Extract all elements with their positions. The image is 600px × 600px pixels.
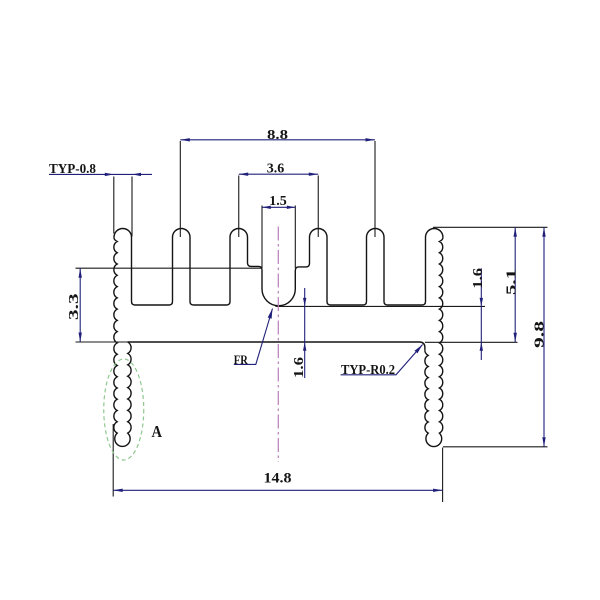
arrowhead dim 14.8 left <box>113 489 123 492</box>
arrowhead dim 1.6 right top <box>480 298 483 307</box>
arrowhead dim TYP-0.8 right <box>132 173 141 176</box>
extension line: base bottom rightward (for dims 1.6 and 5.1) <box>425 341 518 343</box>
dimension line 8.8 <box>180 139 375 141</box>
detail ellipse A (green dashed) <box>104 359 144 460</box>
heatsink profile: fins and grooves outline <box>114 229 443 306</box>
heatsink profile: serrated right edge and right mounting pin <box>425 237 443 446</box>
arrowhead dim 3.6 right <box>309 173 318 176</box>
extension line: fin3 center (dim 3.6 left) <box>238 176 240 238</box>
svg-text:5.1: 5.1 <box>504 269 519 295</box>
heatsink profile: serrated left edge and left mounting pin <box>114 237 131 446</box>
dimension line 3.3 <box>79 268 81 342</box>
dimension line 5.1 <box>514 227 516 342</box>
arrowhead dim 1.6 right bottom <box>480 342 483 351</box>
arrowhead dim 1.5 left <box>262 206 271 209</box>
extension line: fin1 left side up (dim TYP-0.8) <box>113 177 115 234</box>
dimension line 9.8 <box>543 227 545 446</box>
svg-text:8.8: 8.8 <box>267 128 288 143</box>
arrowhead dim 1.5 right <box>287 206 296 209</box>
arrowhead dim 8.8 right <box>366 138 376 141</box>
svg-text:3.3: 3.3 <box>67 293 82 320</box>
arrowhead dim 1.6 middle top <box>303 298 306 307</box>
leader line FR <box>234 309 273 365</box>
arrowhead dim 8.8 left <box>180 138 190 141</box>
svg-text:TYP-0.8: TYP-0.8 <box>49 162 96 177</box>
svg-text:9.8: 9.8 <box>533 321 548 348</box>
heatsink profile: base bottom with R0.2 fillet corner <box>128 342 425 351</box>
arrowhead leader TYP-R0.2 <box>415 345 423 354</box>
arrowhead dim TYP-0.8 left <box>105 173 114 176</box>
svg-text:A: A <box>152 422 163 441</box>
extension line: fin top level rightward (for dims 5.1 and 9.8) <box>433 226 548 228</box>
svg-text:14.8: 14.8 <box>264 471 292 487</box>
arrowhead dim 9.8 bottom <box>542 437 545 447</box>
arrowhead leader FR <box>268 309 273 319</box>
arrowhead dim 5.1 bottom <box>514 333 517 343</box>
extension line: groove floor rightward (for dims 1.6) <box>276 305 486 307</box>
svg-text:1.6: 1.6 <box>471 268 486 289</box>
centerline (magenta dash-dot) <box>277 227 279 463</box>
extension line: slot right wall up (dim 1.5) <box>294 206 296 269</box>
svg-text:1.6: 1.6 <box>292 357 307 378</box>
extension line: left pin bottom down (dim 14.8 left) <box>112 424 114 497</box>
extension line: base bottom leftward (for dim 3.3) <box>76 341 129 343</box>
dimension line 1.6 middle <box>304 288 306 378</box>
arrowhead dim 3.3 bottom <box>79 333 82 343</box>
extension line: slot left wall up (dim 1.5) <box>261 206 263 269</box>
extension line: fin5 center (dim 8.8 right) <box>374 141 376 237</box>
leader line TYP-R0.2 <box>341 345 423 375</box>
dimension line 3.6 <box>239 173 319 175</box>
dimension line 14.8 <box>113 489 442 491</box>
extension line: pin bottom rightward (for dim 9.8) <box>443 446 548 448</box>
svg-text:3.6: 3.6 <box>267 162 285 177</box>
svg-text:FR: FR <box>234 353 249 367</box>
dimension line 1.6 right <box>480 268 482 360</box>
extension line: right pin bottom down (dim 14.8 right) <box>442 448 444 503</box>
svg-text:1.5: 1.5 <box>269 193 287 208</box>
arrowhead dim 5.1 top <box>514 227 517 237</box>
arrowhead dim 14.8 right <box>433 489 443 492</box>
dimension line TYP-0.8 (with underline of text) <box>49 173 152 175</box>
arrowhead dim 3.3 top <box>79 268 82 278</box>
arrowhead dim 3.6 left <box>239 173 248 176</box>
extension line: fin2 center (dim 8.8 left) <box>179 141 181 237</box>
arrowhead dim 9.8 top <box>542 227 545 237</box>
extension line: fin4 center (dim 3.6 right) <box>317 176 319 238</box>
dimension line 1.5 <box>262 206 295 208</box>
extension line: fin1 right side up (dim TYP-0.8) <box>131 177 133 237</box>
extension line: top of base web (for dim 3.3) <box>76 267 263 269</box>
svg-text:TYP-R0.2: TYP-R0.2 <box>341 363 395 378</box>
arrowhead dim 1.6 middle bottom <box>303 342 306 351</box>
